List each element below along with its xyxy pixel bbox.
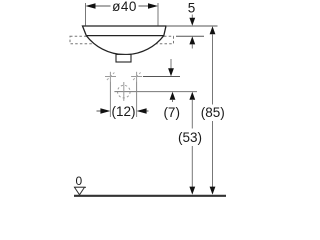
fixing hole cross right xyxy=(131,72,142,81)
dimension 12 extension line left xyxy=(109,81,111,117)
dimension 12 right arrow xyxy=(137,108,147,114)
dimension 12 extension line right xyxy=(136,81,138,117)
datum zero underline xyxy=(74,186,86,188)
reference line A (fixing holes level) xyxy=(143,76,180,78)
dimension 5 upper reference line xyxy=(166,25,218,27)
fixing hole cross left xyxy=(105,72,116,81)
svg-text:0: 0 xyxy=(75,174,82,188)
dimension ø40 extension line left xyxy=(85,3,87,26)
dimension 85 line lower segment xyxy=(212,121,214,187)
drain crosshair vertical xyxy=(123,82,125,101)
countertop cutout (dashed rectangle) xyxy=(70,36,174,44)
dimension ø40 line right segment xyxy=(139,5,149,7)
svg-text:(53): (53) xyxy=(178,130,202,145)
svg-text:5: 5 xyxy=(188,1,196,16)
dimension 53 up arrow xyxy=(189,92,195,100)
floor line xyxy=(74,195,226,197)
basin bowl xyxy=(86,36,164,55)
dimension 7 down arrow tail xyxy=(170,59,172,69)
dimension 85 line upper segment xyxy=(212,34,214,104)
dimension 7 down arrow xyxy=(168,68,174,76)
dimension 7 up arrow xyxy=(170,92,176,100)
dimension 5 lower reference line xyxy=(176,35,204,37)
dimension ø40 arrow right xyxy=(148,3,158,9)
dimension 12 right arrow tail xyxy=(147,110,149,112)
dimension 53 line upper segment xyxy=(191,100,193,129)
drain crosshair horizontal / reference line B xyxy=(114,91,197,93)
svg-text:(85): (85) xyxy=(201,105,225,120)
dimension ø40 extension line right xyxy=(157,3,159,26)
dimension 85 down arrow xyxy=(210,187,216,195)
dimension 5 down arrow xyxy=(189,18,195,26)
drain fitting xyxy=(116,54,131,62)
dimension 12 left arrow tail xyxy=(97,110,102,112)
svg-text:ø40: ø40 xyxy=(112,0,137,14)
dimension ø40 arrow left xyxy=(86,3,96,9)
dimension 53 down arrow xyxy=(189,187,195,195)
datum zero triangle xyxy=(75,187,85,195)
dimension 5 up arrow xyxy=(189,36,195,44)
dimension 53 line lower segment xyxy=(191,146,193,187)
dimension 85 up arrow xyxy=(210,26,216,34)
basin rim xyxy=(83,26,167,36)
dimension ø40 line left segment xyxy=(95,5,111,7)
dimension 5 down arrow tail xyxy=(191,15,193,20)
dimension 5 up arrow tail xyxy=(191,44,193,48)
svg-text:(7): (7) xyxy=(163,105,180,120)
svg-text:(12): (12) xyxy=(111,104,135,119)
dimension 7 up arrow tail xyxy=(172,100,174,102)
drain position circle (dashed) xyxy=(118,85,131,98)
dimension 12 left arrow xyxy=(100,108,110,114)
